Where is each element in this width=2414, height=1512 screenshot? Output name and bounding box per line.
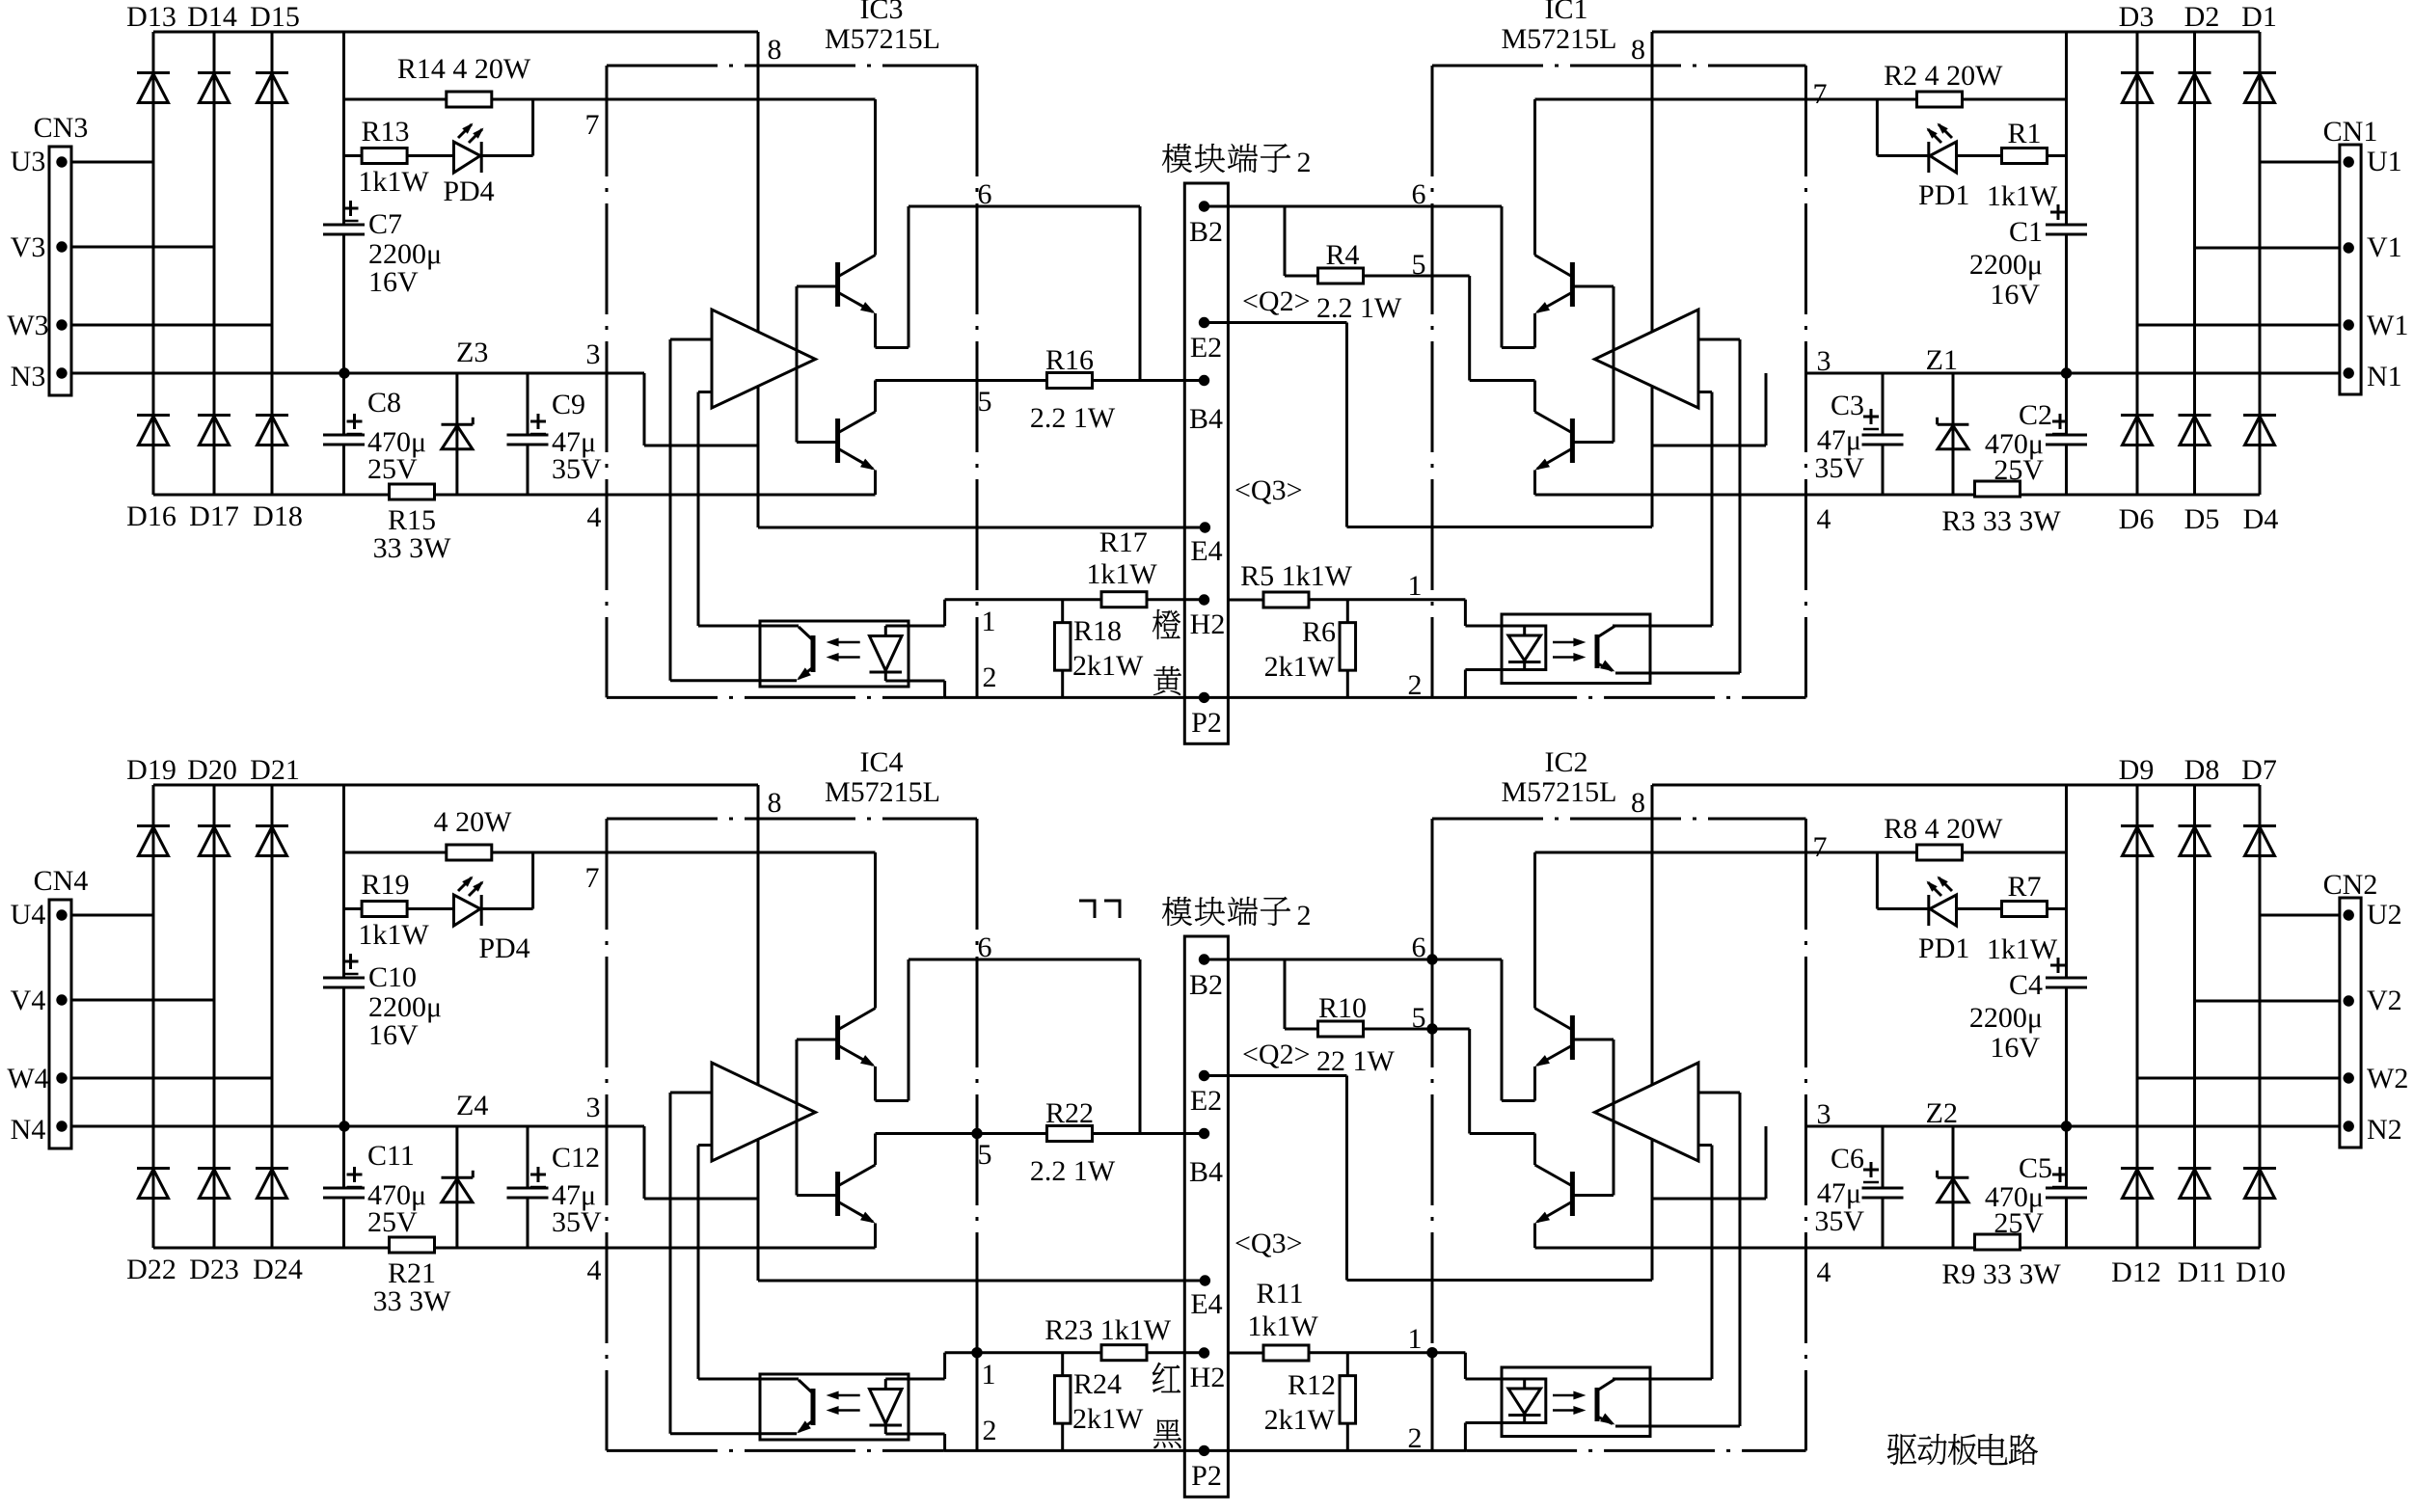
svg-text:D21: D21 bbox=[250, 754, 300, 786]
svg-text:R23 1k1W: R23 1k1W bbox=[1044, 1314, 1172, 1346]
junction dot H2 line right bbox=[1426, 1347, 1437, 1358]
node B4 bbox=[1189, 375, 1223, 435]
wire R2 to PD drop right bbox=[1876, 99, 1879, 156]
svg-text:7: 7 bbox=[1813, 78, 1828, 110]
wire W1 bbox=[2137, 324, 2340, 327]
diode D19 bbox=[126, 754, 176, 856]
wire pin7 rail bbox=[344, 98, 876, 101]
pin 4 label bbox=[587, 1255, 602, 1286]
LED PD4 bbox=[454, 877, 530, 965]
pin 1 label right bbox=[1408, 570, 1423, 602]
wire W4 bbox=[71, 1077, 272, 1080]
svg-text:C8: C8 bbox=[367, 387, 401, 418]
node B2 bbox=[1189, 954, 1223, 1001]
wire R14 to PD drop bbox=[531, 852, 534, 909]
svg-text:3: 3 bbox=[586, 338, 601, 370]
IC box bottom edge bbox=[607, 1449, 944, 1452]
svg-text:35V: 35V bbox=[1814, 1205, 1864, 1237]
IC box top edge bbox=[607, 818, 977, 821]
svg-text:25V: 25V bbox=[367, 1206, 418, 1238]
wire P2 line right bbox=[1205, 1449, 1467, 1452]
diode D4 bbox=[2243, 416, 2279, 536]
svg-text:2k1W: 2k1W bbox=[1072, 650, 1144, 682]
pin U1 bbox=[2344, 146, 2402, 177]
svg-text:1: 1 bbox=[1408, 570, 1423, 602]
node title driver board circuit bbox=[1887, 1434, 2038, 1465]
svg-text:IC1: IC1 bbox=[1545, 0, 1588, 25]
wire opto emitter right bbox=[1615, 672, 1740, 675]
pin N2 bbox=[2344, 1114, 2402, 1146]
node wire color 红 bbox=[1153, 1363, 1180, 1392]
pin 6 label bbox=[978, 931, 992, 963]
svg-text:D8: D8 bbox=[2184, 754, 2220, 786]
svg-text:U2: U2 bbox=[2367, 899, 2402, 931]
svg-text:C11: C11 bbox=[367, 1140, 415, 1172]
svg-text:CN4: CN4 bbox=[34, 865, 89, 897]
pin 4 label right bbox=[1817, 503, 1831, 535]
wire diode column 5 bbox=[2193, 785, 2196, 1248]
capacitor C10 bbox=[323, 954, 442, 1051]
zener Z3 bbox=[442, 337, 489, 495]
svg-text:M57215L: M57215L bbox=[1502, 776, 1617, 808]
node P2 bbox=[1191, 1445, 1222, 1492]
connector CN2 bbox=[2323, 869, 2378, 1147]
svg-text:B4: B4 bbox=[1189, 403, 1223, 435]
opto LED bbox=[870, 626, 903, 681]
wire opto pin 2 bbox=[885, 1434, 944, 1450]
connector CN3 bbox=[34, 112, 89, 395]
node terminal block label bbox=[1079, 897, 1312, 931]
wire opto pin 2 right bbox=[1465, 1423, 1502, 1451]
svg-text:22 1W: 22 1W bbox=[1316, 1045, 1396, 1077]
svg-text:R7: R7 bbox=[2007, 871, 2041, 903]
opto phototransistor right bbox=[1597, 627, 1615, 672]
pin 7 label right bbox=[1813, 78, 1828, 110]
optocoupler box right bbox=[1502, 614, 1650, 684]
svg-text:C6: C6 bbox=[1831, 1143, 1864, 1174]
svg-text:D19: D19 bbox=[126, 754, 176, 786]
svg-text:R2 4 20W: R2 4 20W bbox=[1884, 60, 2003, 92]
wire pin 3 jog bbox=[644, 373, 758, 445]
wire pin 3 jog right bbox=[1652, 373, 1766, 445]
node Q3 label bbox=[1234, 1228, 1303, 1259]
wire amp input 2 right bbox=[1698, 392, 1712, 627]
svg-text:7: 7 bbox=[585, 862, 600, 894]
svg-text:1: 1 bbox=[982, 606, 996, 637]
svg-text:E2: E2 bbox=[1190, 1085, 1222, 1117]
pin N3 bbox=[11, 361, 68, 392]
pin 8 label bbox=[768, 787, 782, 819]
op-amp triangle bbox=[712, 1063, 816, 1161]
diode D13 bbox=[126, 1, 176, 103]
svg-text:D7: D7 bbox=[2241, 754, 2277, 786]
svg-text:D15: D15 bbox=[250, 1, 300, 33]
svg-text:IC2: IC2 bbox=[1545, 746, 1588, 778]
svg-text:H2: H2 bbox=[1190, 608, 1226, 640]
wire U3 bbox=[71, 161, 153, 164]
svg-text:4: 4 bbox=[1817, 1256, 1831, 1288]
pin 2 label right bbox=[1408, 1422, 1423, 1454]
resistor R19 bbox=[358, 869, 429, 951]
wire diode column 1 bbox=[152, 785, 155, 1248]
wire diode column 6 bbox=[2259, 785, 2262, 1248]
resistor R14 bbox=[397, 53, 531, 107]
resistor R15 bbox=[373, 484, 452, 564]
svg-text:D9: D9 bbox=[2119, 754, 2155, 786]
opto LED bbox=[870, 1379, 903, 1434]
resistor R1 bbox=[1987, 118, 2058, 212]
opto light arrows right bbox=[1553, 1391, 1586, 1416]
wire E4 to pin 8 bbox=[758, 526, 1205, 529]
resistor R7 bbox=[1987, 871, 2058, 965]
wire diode column 6 bbox=[2259, 32, 2262, 495]
wire top bus top rail R1 bbox=[1652, 31, 2260, 34]
capacitor C6 bbox=[1814, 1126, 1903, 1248]
IC right box left edge bbox=[1431, 66, 1434, 697]
svg-text:N4: N4 bbox=[11, 1114, 46, 1146]
wire amp input 2 right bbox=[1698, 1146, 1712, 1380]
svg-text:33 3W: 33 3W bbox=[373, 1285, 452, 1317]
svg-text:1k1W: 1k1W bbox=[358, 919, 429, 951]
svg-text:W1: W1 bbox=[2367, 310, 2408, 341]
svg-text:E2: E2 bbox=[1190, 332, 1222, 364]
svg-text:R13: R13 bbox=[361, 116, 409, 148]
wire base link right bbox=[1572, 286, 1614, 443]
wire C7 chain bbox=[342, 32, 345, 495]
node Q2 label bbox=[1242, 285, 1311, 317]
wire junction overlay left bbox=[976, 1109, 979, 1450]
diode D1 bbox=[2241, 1, 2277, 103]
svg-text:M57215L: M57215L bbox=[825, 776, 940, 808]
svg-text:E4: E4 bbox=[1190, 1288, 1222, 1320]
wire V1 bbox=[2195, 247, 2340, 250]
resistor R24 bbox=[1054, 1353, 1144, 1451]
wire base link right bbox=[1572, 1039, 1614, 1196]
pin V3 bbox=[11, 231, 68, 263]
node B4 bbox=[1189, 1128, 1223, 1188]
node B2 bbox=[1189, 201, 1223, 248]
op-amp triangle right bbox=[1595, 1063, 1699, 1161]
wire P2 line bbox=[944, 1449, 1205, 1452]
svg-text:C3: C3 bbox=[1831, 390, 1864, 421]
capacitor C2 bbox=[1985, 399, 2087, 486]
svg-text:N2: N2 bbox=[2367, 1114, 2402, 1146]
svg-text:H2: H2 bbox=[1190, 1362, 1226, 1393]
wire pin 3 jog bbox=[644, 1126, 758, 1199]
svg-text:4: 4 bbox=[587, 501, 602, 533]
resistor R3 bbox=[1941, 481, 2061, 537]
resistor R5 bbox=[1228, 560, 1352, 607]
wire pin 3 jog right bbox=[1652, 1126, 1766, 1199]
svg-text:D12: D12 bbox=[2111, 1256, 2161, 1288]
IC box top edge bbox=[607, 65, 977, 67]
optocoupler box bbox=[760, 621, 909, 687]
svg-text:R3 33 3W: R3 33 3W bbox=[1941, 505, 2061, 537]
diode D18 bbox=[253, 416, 303, 533]
IC box right edge bbox=[976, 819, 979, 1450]
pin 5 label right bbox=[1412, 249, 1426, 281]
svg-text:Z3: Z3 bbox=[456, 337, 488, 368]
node E4 bbox=[1190, 1275, 1222, 1320]
pin 4 label right bbox=[1817, 1256, 1831, 1288]
svg-text:CN3: CN3 bbox=[34, 112, 89, 144]
svg-text:8: 8 bbox=[1631, 34, 1645, 66]
pin W4 bbox=[7, 1063, 67, 1094]
capacitor C3 bbox=[1814, 373, 1903, 495]
opto LED right bbox=[1502, 1379, 1546, 1423]
wire opto pin 1 right bbox=[1309, 1353, 1546, 1379]
svg-text:R1: R1 bbox=[2007, 118, 2041, 149]
diode D20 bbox=[187, 754, 237, 856]
svg-text:C9: C9 bbox=[552, 389, 585, 420]
opto light arrows right bbox=[1553, 638, 1586, 662]
svg-text:C4: C4 bbox=[2009, 969, 2043, 1001]
opto light arrows bbox=[827, 1391, 860, 1416]
svg-text:<Q2>: <Q2> bbox=[1242, 285, 1311, 317]
diode D12 bbox=[2111, 1169, 2161, 1289]
wire E4 to pin 8 bbox=[758, 1280, 1205, 1282]
wire opto pin 2 bbox=[885, 681, 944, 697]
junction dot pin5 right bbox=[1426, 1023, 1437, 1034]
LED PD1 bbox=[1918, 123, 1969, 212]
diode D22 bbox=[126, 1169, 176, 1286]
node terminal block label bbox=[1162, 144, 1312, 178]
pin 8 label right bbox=[1631, 34, 1645, 66]
svg-text:Z4: Z4 bbox=[456, 1090, 488, 1121]
svg-text:2.2 1W: 2.2 1W bbox=[1030, 402, 1116, 434]
node wire color 橙 bbox=[1153, 609, 1180, 639]
svg-text:2200μ: 2200μ bbox=[1969, 249, 2043, 281]
opto phototransistor bbox=[797, 627, 813, 681]
wire diode column 2 bbox=[213, 785, 216, 1248]
op-amp module IC3 bbox=[825, 0, 940, 55]
zener Z2 bbox=[1926, 1097, 1969, 1248]
svg-text:IC4: IC4 bbox=[860, 746, 904, 778]
diode D10 bbox=[2236, 1169, 2286, 1289]
svg-text:IC3: IC3 bbox=[860, 0, 904, 25]
wire top bus top rail 2 bbox=[153, 784, 758, 787]
svg-text:B4: B4 bbox=[1189, 1156, 1223, 1188]
resistor R11 bbox=[1228, 1278, 1318, 1361]
op-amp triangle bbox=[712, 310, 816, 408]
wire opto collector right bbox=[1613, 625, 1712, 628]
svg-text:2: 2 bbox=[983, 661, 997, 693]
svg-text:U4: U4 bbox=[11, 899, 46, 931]
node E2 bbox=[1190, 1070, 1222, 1117]
connector CN4 bbox=[34, 865, 89, 1148]
wire junction overlay right bbox=[1431, 930, 1434, 1450]
svg-text:1: 1 bbox=[982, 1359, 996, 1390]
pin 1 label right bbox=[1408, 1323, 1423, 1355]
svg-text:5: 5 bbox=[978, 386, 992, 418]
transistor Q upper bbox=[838, 852, 876, 1101]
wire W3 bbox=[71, 324, 272, 327]
svg-text:R10: R10 bbox=[1318, 992, 1367, 1024]
svg-text:1k1W: 1k1W bbox=[1086, 558, 1157, 590]
svg-text:25V: 25V bbox=[367, 453, 418, 485]
junction node N4 bbox=[339, 1120, 349, 1131]
svg-text:16V: 16V bbox=[368, 266, 419, 298]
svg-text:Z1: Z1 bbox=[1926, 344, 1958, 376]
diode D23 bbox=[189, 1169, 239, 1286]
wire C1 chain bbox=[2065, 32, 2068, 495]
resistor R23 bbox=[1044, 1314, 1172, 1361]
pin 7 label bbox=[585, 109, 600, 141]
svg-text:7: 7 bbox=[1813, 831, 1828, 863]
svg-text:D17: D17 bbox=[189, 500, 239, 532]
svg-text:7: 7 bbox=[585, 109, 600, 141]
pin 7 label right bbox=[1813, 831, 1828, 863]
wire R14 to PD drop bbox=[531, 99, 534, 156]
node wire color 黄 bbox=[1153, 666, 1181, 695]
pin 6 label right bbox=[1412, 178, 1426, 210]
svg-text:PD4: PD4 bbox=[443, 175, 494, 207]
wire P2 line right bbox=[1205, 696, 1467, 699]
svg-text:B2: B2 bbox=[1189, 969, 1223, 1001]
pin 5 label bbox=[978, 386, 992, 418]
svg-text:35V: 35V bbox=[552, 453, 602, 485]
svg-text:V4: V4 bbox=[11, 985, 46, 1016]
IC right box right edge bbox=[1804, 66, 1807, 697]
diode D2 bbox=[2179, 1, 2220, 103]
svg-text:R24: R24 bbox=[1073, 1368, 1122, 1400]
svg-text:4: 4 bbox=[587, 1255, 602, 1286]
transistor Q upper bbox=[838, 99, 876, 348]
pin N1 bbox=[2344, 361, 2402, 392]
resistor R17 bbox=[1086, 526, 1157, 607]
pin V1 bbox=[2344, 231, 2402, 263]
svg-text:2: 2 bbox=[1297, 900, 1312, 931]
optocoupler box right bbox=[1502, 1367, 1650, 1437]
pin U3 bbox=[11, 146, 68, 177]
svg-text:2: 2 bbox=[983, 1415, 997, 1446]
junction dot pin6 right bbox=[1426, 954, 1437, 964]
wire N1 bbox=[1806, 372, 2340, 375]
svg-text:M57215L: M57215L bbox=[825, 23, 940, 55]
diode D9 bbox=[2119, 754, 2155, 856]
diode D6 bbox=[2119, 416, 2155, 536]
IC right box top edge bbox=[1432, 818, 1806, 821]
wire B2 to pin 6 bbox=[1205, 958, 1503, 961]
LED PD1 bbox=[1918, 877, 1969, 965]
svg-text:C12: C12 bbox=[552, 1142, 600, 1174]
wire opto collector bbox=[698, 625, 799, 628]
wire pin7 rail right bbox=[1535, 98, 2067, 101]
diode D7 bbox=[2241, 754, 2277, 856]
resistor R16 bbox=[1030, 344, 1116, 434]
svg-text:D10: D10 bbox=[2236, 1256, 2286, 1288]
wire diode column 3 bbox=[271, 32, 274, 495]
wire pin 8 vertical bbox=[757, 32, 760, 527]
svg-text:W4: W4 bbox=[7, 1063, 48, 1094]
wire opto pin 2 right bbox=[1465, 670, 1502, 698]
optocoupler box bbox=[760, 1374, 909, 1440]
wire pin7 rail bbox=[344, 851, 876, 854]
svg-text:2.2 1W: 2.2 1W bbox=[1316, 292, 1402, 324]
resistor R9 bbox=[1941, 1234, 2061, 1290]
svg-text:<Q3>: <Q3> bbox=[1234, 474, 1303, 506]
wire bottom bus pin4 pin4 rail 2 bbox=[153, 1247, 876, 1250]
svg-text:Z2: Z2 bbox=[1926, 1097, 1958, 1129]
svg-text:P2: P2 bbox=[1191, 1460, 1222, 1492]
svg-text:PD4: PD4 bbox=[478, 932, 529, 964]
svg-text:D13: D13 bbox=[126, 1, 176, 33]
diode D11 bbox=[2178, 1169, 2227, 1289]
pin 3 label bbox=[586, 338, 601, 370]
terminal block 2 bbox=[1184, 936, 1228, 1497]
resistor R10 bbox=[1285, 959, 1470, 1077]
capacitor C7 bbox=[323, 201, 442, 298]
wire pin 5 line bbox=[876, 379, 1205, 382]
svg-text:N1: N1 bbox=[2367, 361, 2402, 392]
IC box bottom edge bbox=[607, 696, 944, 699]
pin U4 bbox=[11, 899, 68, 931]
svg-text:5: 5 bbox=[978, 1139, 992, 1171]
IC right box bottom edge bbox=[1466, 1449, 1805, 1452]
svg-text:D14: D14 bbox=[187, 1, 237, 33]
op-amp module IC4 bbox=[825, 746, 940, 808]
wire B2 to pin 6 bbox=[1205, 205, 1503, 208]
wire diode column 4 bbox=[2136, 785, 2139, 1248]
op-amp triangle right bbox=[1595, 310, 1699, 408]
svg-text:35V: 35V bbox=[552, 1206, 602, 1238]
diode D3 bbox=[2119, 1, 2155, 103]
capacitor C12 bbox=[507, 1126, 603, 1248]
capacitor C1 bbox=[1969, 204, 2087, 310]
wire diode column 1 bbox=[152, 32, 155, 495]
pin 6 label right bbox=[1412, 931, 1426, 963]
wire C1 chain bbox=[2065, 785, 2068, 1248]
svg-text:C10: C10 bbox=[368, 961, 417, 993]
junction node N3 bbox=[339, 367, 349, 378]
IC right box top edge bbox=[1432, 65, 1806, 67]
diode D17 bbox=[189, 416, 239, 533]
wire U2 bbox=[2260, 914, 2340, 917]
resistor R6 bbox=[1264, 600, 1356, 697]
resistor R2 bbox=[1884, 60, 2003, 107]
wire pin 5 jog right bbox=[1470, 1029, 1535, 1134]
svg-text:V1: V1 bbox=[2367, 231, 2402, 263]
wire pin 5 line bbox=[876, 1132, 1205, 1135]
zener Z4 bbox=[442, 1090, 489, 1248]
wire diode column 4 bbox=[2136, 32, 2139, 495]
wire P2 line bbox=[944, 696, 1205, 699]
svg-text:2k1W: 2k1W bbox=[1264, 651, 1336, 683]
wire R1 line bbox=[1877, 154, 2066, 157]
wire opto emitter bbox=[670, 1432, 797, 1435]
svg-text:P2: P2 bbox=[1191, 707, 1222, 739]
svg-text:35V: 35V bbox=[1814, 452, 1864, 484]
svg-text:N3: N3 bbox=[11, 361, 46, 392]
svg-text:1k1W: 1k1W bbox=[1247, 1310, 1318, 1342]
wire N4 to pin 3 bbox=[71, 1125, 644, 1128]
svg-text:6: 6 bbox=[1412, 178, 1426, 210]
zener Z1 bbox=[1926, 344, 1969, 495]
junction dot R22 line bbox=[971, 1128, 982, 1139]
pin W2 bbox=[2344, 1063, 2409, 1094]
junction dot H2 line left bbox=[971, 1347, 982, 1358]
IC right box bottom edge bbox=[1466, 696, 1805, 699]
wire Q upper emitter to pin 6 right bbox=[1502, 959, 1535, 1101]
wire N3 to pin 3 bbox=[71, 372, 644, 375]
transistor Q lower bbox=[838, 1134, 876, 1249]
wire pin 8 vertical bbox=[757, 785, 760, 1281]
wire U1 bbox=[2260, 161, 2340, 164]
svg-text:R12: R12 bbox=[1288, 1369, 1336, 1401]
pin 6 label bbox=[978, 178, 992, 210]
wire E2 jog bbox=[1205, 323, 1653, 527]
diode D5 bbox=[2179, 416, 2220, 536]
